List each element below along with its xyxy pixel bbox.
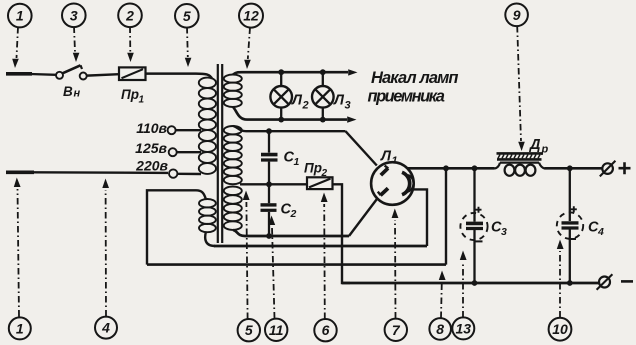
callout 5 bottom	[238, 191, 260, 342]
filament arc	[402, 172, 410, 194]
lamp L3	[312, 69, 351, 122]
node: riser on plus rail	[443, 165, 449, 171]
svg-text:р: р	[541, 144, 549, 156]
svg-text:Пр: Пр	[304, 161, 322, 176]
svg-text:11: 11	[269, 322, 284, 338]
svg-text:4: 4	[597, 226, 604, 238]
svg-text:12: 12	[243, 8, 259, 24]
tap 110v	[136, 120, 201, 136]
wire: lamp rail top with arrow	[233, 72, 348, 74]
callout 1 top	[8, 4, 32, 68]
terminal plus	[600, 161, 631, 177]
node: C3 bottom junction	[472, 280, 478, 286]
transformer lamp-filament winding (right top)	[224, 75, 242, 108]
terminal minus	[597, 274, 633, 290]
fuse Pr2	[304, 161, 333, 190]
svg-text:4: 4	[101, 320, 110, 336]
node: C1/C2 junction	[266, 181, 272, 187]
wire: HV center tap	[240, 183, 307, 185]
svg-text:125в: 125в	[135, 140, 167, 156]
capacitor C4 (electrolytic)	[557, 168, 604, 283]
transformer rectifier-filament winding (left lower)	[199, 199, 216, 232]
node: C3 top junction	[472, 165, 478, 171]
transformer T core	[217, 64, 219, 243]
capacitor C2	[261, 184, 297, 236]
callout 3 top	[62, 4, 86, 63]
callout 1 bottom	[9, 178, 31, 340]
svg-text:8: 8	[436, 321, 444, 337]
svg-text:н: н	[74, 88, 81, 100]
anode 1	[381, 168, 388, 175]
svg-text:В: В	[63, 84, 73, 99]
svg-text:7: 7	[392, 322, 401, 338]
svg-text:1: 1	[16, 320, 24, 336]
node: C1 top junction	[266, 128, 272, 134]
wire: diagonal to tube lower anode	[349, 198, 377, 236]
svg-text:5: 5	[245, 322, 253, 338]
tube L1 (kenotron)	[371, 149, 414, 205]
svg-text:2: 2	[290, 208, 297, 220]
svg-text:220в: 220в	[135, 158, 168, 174]
wire fuse to transformer primary	[146, 74, 213, 79]
wire: HV bottom rail	[233, 230, 349, 236]
svg-text:1: 1	[294, 156, 300, 168]
svg-text:1: 1	[16, 8, 24, 24]
tap 220v	[135, 158, 201, 178]
capacitor C1	[261, 131, 300, 184]
svg-text:2: 2	[125, 7, 134, 23]
wire: fuse to minus rail drop	[333, 184, 351, 283]
fuse Pr1	[119, 67, 146, 105]
callout 6 bottom	[314, 193, 336, 342]
callout 7 bottom	[385, 209, 407, 341]
svg-text:приемника: приемника	[368, 88, 445, 106]
svg-text:2: 2	[302, 100, 309, 112]
callout 2 top	[118, 4, 142, 63]
wire: cathode/filament rail	[214, 245, 427, 248]
svg-text:5: 5	[183, 8, 191, 24]
svg-text:10: 10	[552, 321, 568, 337]
choke Dr core	[497, 137, 549, 159]
anode 2	[380, 188, 388, 195]
svg-text:9: 9	[513, 7, 521, 23]
svg-text:13: 13	[456, 320, 472, 336]
tap 125v	[135, 140, 201, 156]
svg-text:3: 3	[70, 7, 78, 23]
wire: tube lower filament lead down	[412, 189, 428, 246]
switch Vn	[56, 65, 87, 99]
node: C4 top junction	[567, 165, 573, 171]
wire: riser filament to plus rail	[445, 168, 447, 264]
wire: mains input bottom (to 220v tap)	[6, 171, 34, 175]
wire: plus rail from tube	[407, 167, 495, 170]
wire: filament return rail	[147, 263, 446, 266]
capacitor C3 (electrolytic)	[460, 168, 507, 283]
callout 4 bottom	[95, 179, 117, 339]
callout 9 top	[505, 4, 528, 152]
svg-text:Л: Л	[333, 93, 345, 109]
svg-text:Накал ламп: Накал ламп	[371, 69, 458, 87]
svg-text:3: 3	[501, 226, 507, 238]
wire: minus rail	[342, 282, 599, 285]
transformer HV winding upper half (right)	[224, 126, 242, 184]
wire: filament winding bottom end to cathode rail	[205, 232, 215, 247]
node: C2 bottom junction	[266, 233, 272, 239]
wire: filament winding top end, around left	[147, 190, 206, 264]
callout 12 top	[239, 4, 263, 69]
svg-text:6: 6	[322, 322, 330, 338]
svg-text:Д: Д	[528, 137, 541, 153]
callout 10 bottom	[549, 240, 572, 341]
svg-text:Пр: Пр	[121, 87, 139, 102]
callout 5 top	[175, 4, 199, 67]
lamp L2	[270, 69, 308, 122]
wire: plus rail after choke	[545, 167, 603, 170]
callout 11 bottom	[265, 216, 287, 341]
callout 8 bottom	[429, 271, 451, 340]
wire: lamp rail bottom with arrow	[233, 107, 347, 120]
svg-text:3: 3	[345, 100, 351, 112]
wire: mains input top	[6, 72, 32, 76]
svg-text:Л: Л	[291, 93, 303, 109]
wire: HV top rail	[233, 126, 346, 131]
transformer primary winding (left)	[199, 78, 216, 174]
wire switch to fuse	[87, 74, 119, 75]
callout 13 bottom	[452, 251, 474, 340]
transformer HV winding lower half (right)	[224, 187, 242, 230]
wire: diagonal to tube upper anode	[346, 131, 377, 165]
svg-text:110в: 110в	[136, 120, 167, 136]
node: C4 bottom junction	[567, 280, 573, 286]
choke Dr coil	[495, 163, 546, 176]
svg-text:1: 1	[139, 95, 145, 106]
